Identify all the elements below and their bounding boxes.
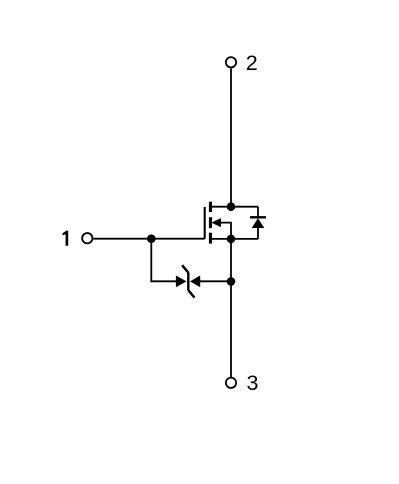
svg-text:2: 2 bbox=[246, 51, 258, 75]
svg-text:3: 3 bbox=[247, 371, 259, 395]
